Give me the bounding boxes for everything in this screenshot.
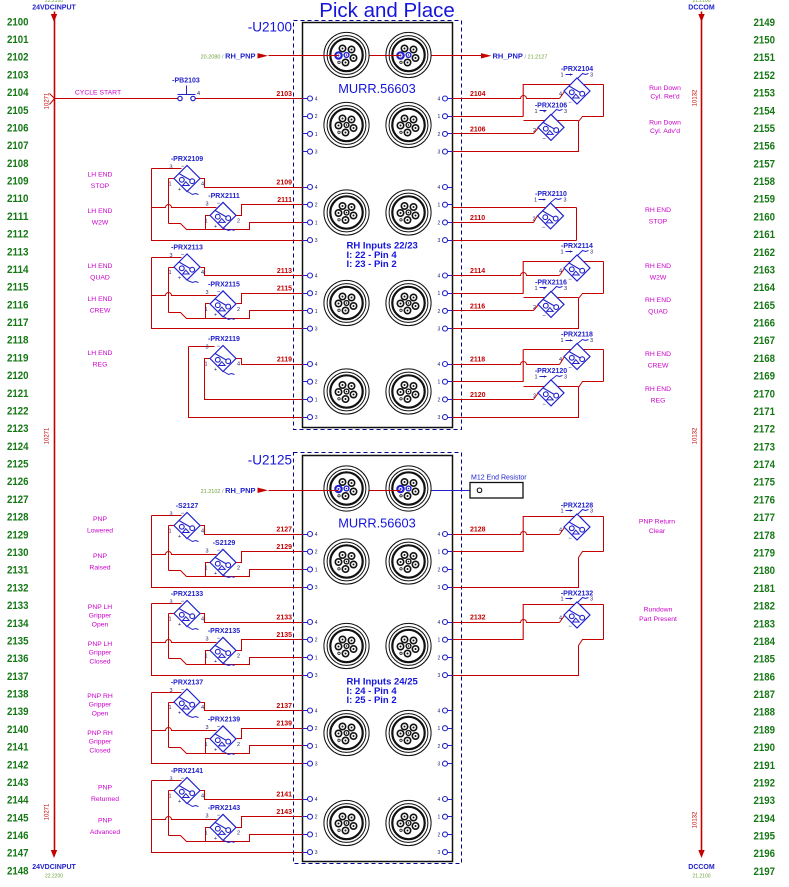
label Run Down Cyl. Ret'd bbox=[649, 85, 681, 101]
wire number 2120 bbox=[470, 392, 486, 399]
svg-text:2114: 2114 bbox=[7, 264, 29, 276]
right power rail DCCOM bbox=[688, 0, 715, 880]
svg-text:-PRX2132: -PRX2132 bbox=[561, 591, 593, 598]
svg-text:2: 2 bbox=[237, 742, 240, 748]
proximity sensor PRX2141 bbox=[168, 768, 204, 807]
svg-text:CYCLE START: CYCLE START bbox=[75, 90, 121, 97]
svg-text:2150: 2150 bbox=[754, 34, 776, 46]
svg-text:2: 2 bbox=[237, 653, 240, 659]
svg-text:W2W: W2W bbox=[650, 275, 667, 282]
svg-text:21.2100: 21.2100 bbox=[692, 0, 710, 4]
wire net PRX2109/PRX2111 supply and signals bbox=[152, 169, 303, 241]
svg-text:2110: 2110 bbox=[7, 193, 29, 205]
svg-text:LH END: LH END bbox=[88, 263, 113, 270]
svg-text:4: 4 bbox=[438, 797, 441, 803]
svg-text:REG: REG bbox=[93, 362, 108, 369]
svg-text:2102: 2102 bbox=[7, 52, 29, 64]
svg-text:−: − bbox=[181, 164, 185, 170]
M12 connector U2100 row4 right bbox=[386, 369, 431, 414]
svg-text:+: + bbox=[214, 224, 217, 230]
svg-text:3: 3 bbox=[438, 762, 441, 768]
svg-text:4: 4 bbox=[438, 274, 441, 280]
svg-text:3: 3 bbox=[315, 150, 318, 156]
svg-text:2119: 2119 bbox=[277, 357, 292, 364]
svg-text:1: 1 bbox=[534, 286, 537, 292]
svg-text:Raised: Raised bbox=[89, 565, 110, 572]
svg-text:3: 3 bbox=[205, 290, 208, 296]
svg-text:+: + bbox=[542, 197, 545, 203]
svg-text:4: 4 bbox=[438, 709, 441, 715]
label PNP Returned bbox=[91, 785, 119, 804]
svg-text:+: + bbox=[569, 338, 572, 344]
svg-text:1: 1 bbox=[560, 338, 563, 344]
svg-text:+: + bbox=[214, 747, 217, 753]
svg-text:-PRX2118: -PRX2118 bbox=[561, 332, 593, 339]
module U2100 left pins bbox=[303, 96, 318, 421]
svg-text:+: + bbox=[569, 73, 572, 79]
svg-text:3: 3 bbox=[315, 762, 318, 768]
svg-text:-PRX2139: -PRX2139 bbox=[208, 716, 240, 723]
svg-text:2156: 2156 bbox=[754, 141, 776, 153]
svg-text:+: + bbox=[569, 597, 572, 603]
svg-text:STOP: STOP bbox=[91, 183, 110, 190]
svg-text:+: + bbox=[178, 276, 181, 282]
svg-text:2133: 2133 bbox=[7, 600, 29, 612]
svg-text:-PRX2110: -PRX2110 bbox=[535, 191, 567, 198]
svg-text:3: 3 bbox=[315, 327, 318, 333]
svg-text:I: 25 - Pin 2: I: 25 - Pin 2 bbox=[347, 695, 397, 706]
wire number 2114 bbox=[470, 268, 485, 275]
svg-text:2143: 2143 bbox=[7, 777, 29, 789]
svg-text:4: 4 bbox=[315, 362, 318, 368]
svg-text:2114: 2114 bbox=[470, 268, 485, 275]
svg-text:2: 2 bbox=[315, 380, 318, 386]
svg-text:1: 1 bbox=[204, 830, 207, 836]
proximity sensor PRX2116 bbox=[533, 279, 567, 319]
svg-text:2167: 2167 bbox=[754, 335, 776, 347]
svg-text:Cyl. Ret'd: Cyl. Ret'd bbox=[650, 94, 679, 101]
svg-text:2141: 2141 bbox=[276, 792, 292, 799]
svg-text:3: 3 bbox=[438, 850, 441, 856]
svg-text:2116: 2116 bbox=[470, 303, 485, 310]
svg-text:−: − bbox=[217, 201, 221, 207]
proximity sensor PRX2104 bbox=[559, 66, 593, 106]
svg-text:3: 3 bbox=[438, 415, 441, 421]
svg-text:2185: 2185 bbox=[754, 654, 776, 666]
wire number 2127 bbox=[276, 527, 292, 534]
svg-text:1: 1 bbox=[534, 197, 537, 203]
push button PB2103 (CYCLE START) bbox=[172, 78, 200, 101]
svg-text:4: 4 bbox=[201, 182, 204, 188]
svg-text:3: 3 bbox=[590, 509, 593, 515]
svg-text:LH END: LH END bbox=[88, 350, 113, 357]
label RH END CREW bbox=[645, 351, 671, 370]
svg-text:2101: 2101 bbox=[7, 34, 29, 46]
svg-text:2: 2 bbox=[315, 550, 318, 556]
svg-text:-PRX2119: -PRX2119 bbox=[208, 336, 240, 343]
svg-text:2: 2 bbox=[533, 393, 536, 399]
wire net PRX2104/PRX2106 supply and signals bbox=[453, 84, 604, 152]
svg-text:−: − bbox=[181, 688, 185, 694]
svg-text:2103: 2103 bbox=[276, 91, 292, 98]
svg-text:2117: 2117 bbox=[7, 317, 29, 329]
svg-text:PNP Return: PNP Return bbox=[639, 519, 675, 526]
svg-text:Gripper: Gripper bbox=[89, 650, 112, 657]
svg-text:4: 4 bbox=[438, 620, 441, 626]
svg-text:4: 4 bbox=[315, 620, 318, 626]
svg-text:2: 2 bbox=[237, 307, 240, 313]
svg-text:CREW: CREW bbox=[648, 363, 669, 370]
svg-text:2161: 2161 bbox=[754, 229, 776, 241]
svg-text:2173: 2173 bbox=[754, 441, 776, 453]
svg-text:3: 3 bbox=[205, 548, 208, 554]
svg-text:Part Present: Part Present bbox=[639, 616, 677, 623]
svg-text:2163: 2163 bbox=[754, 264, 776, 276]
svg-text:3: 3 bbox=[205, 725, 208, 731]
svg-text:+: + bbox=[178, 711, 181, 717]
svg-text:+: + bbox=[178, 622, 181, 628]
proximity sensor PRX2115 bbox=[204, 281, 240, 319]
svg-text:2133: 2133 bbox=[276, 615, 292, 622]
svg-text:2194: 2194 bbox=[754, 813, 776, 825]
wire number 2118 bbox=[470, 357, 485, 364]
svg-text:PNP: PNP bbox=[93, 516, 107, 523]
label LH END QUAD bbox=[88, 263, 113, 282]
svg-text:2182: 2182 bbox=[754, 601, 776, 613]
proximity sensor PRX2143 bbox=[204, 805, 240, 843]
svg-text:2146: 2146 bbox=[7, 830, 29, 842]
svg-text:−: − bbox=[568, 536, 572, 542]
svg-text:2129: 2129 bbox=[7, 529, 29, 541]
svg-text:+: + bbox=[543, 374, 546, 380]
svg-text:-PRX2143: -PRX2143 bbox=[208, 805, 240, 812]
M12 connector U2100 row1 left bbox=[324, 102, 369, 147]
svg-text:Gripper: Gripper bbox=[89, 739, 112, 746]
svg-text:Cyl. Adv'd: Cyl. Adv'd bbox=[650, 128, 680, 135]
proximity sensor PRX2119 bbox=[204, 336, 240, 375]
svg-text:+: + bbox=[214, 659, 217, 665]
svg-text:2188: 2188 bbox=[754, 707, 776, 719]
proximity sensor PRX2114 bbox=[559, 243, 593, 283]
wire RH_PNP feed into U2125 (node 21.2102 / RH_PNP) bbox=[201, 486, 339, 495]
svg-text:2143: 2143 bbox=[276, 809, 292, 816]
svg-text:4: 4 bbox=[315, 97, 318, 103]
svg-text:3: 3 bbox=[169, 600, 172, 606]
module U2125 right pins bbox=[438, 532, 453, 857]
svg-text:4: 4 bbox=[201, 617, 204, 623]
label RH END W2W bbox=[645, 263, 671, 282]
svg-text:DCCOM: DCCOM bbox=[688, 5, 715, 12]
svg-text:1: 1 bbox=[560, 250, 563, 256]
wire number 2110 bbox=[470, 215, 485, 222]
svg-text:2109: 2109 bbox=[7, 176, 29, 188]
svg-text:3: 3 bbox=[438, 673, 441, 679]
svg-text:2: 2 bbox=[237, 218, 240, 224]
svg-text:2152: 2152 bbox=[754, 70, 776, 82]
svg-text:2118: 2118 bbox=[470, 357, 485, 364]
wire net PRX2128 bbox=[453, 516, 604, 588]
svg-text:2106: 2106 bbox=[470, 126, 486, 133]
svg-text:3: 3 bbox=[438, 150, 441, 156]
svg-text:2174: 2174 bbox=[754, 459, 776, 471]
svg-text:2100: 2100 bbox=[7, 16, 29, 28]
svg-text:2160: 2160 bbox=[754, 211, 776, 223]
svg-text:2168: 2168 bbox=[754, 353, 776, 365]
svg-text:−: − bbox=[568, 100, 572, 106]
svg-text:1: 1 bbox=[438, 726, 441, 732]
wire 2103 CYCLE START to U2100 pin4 bbox=[50, 94, 303, 105]
svg-text:2: 2 bbox=[438, 309, 441, 315]
M12 End Resistor bbox=[470, 475, 527, 499]
svg-text:2121: 2121 bbox=[7, 388, 29, 400]
svg-text:2134: 2134 bbox=[7, 618, 29, 630]
proximity sensor PRX2106 bbox=[533, 102, 567, 142]
svg-text:-U2100: -U2100 bbox=[248, 20, 292, 35]
svg-text:10132: 10132 bbox=[693, 427, 699, 444]
label PNP RH Gripper Closed bbox=[87, 730, 113, 754]
proximity sensor PRX2120 bbox=[533, 368, 567, 408]
svg-text:24VDCINPUT: 24VDCINPUT bbox=[32, 5, 76, 12]
label PNP RH Gripper Open bbox=[87, 693, 113, 717]
svg-text:2165: 2165 bbox=[754, 300, 776, 312]
svg-text:2162: 2162 bbox=[754, 247, 776, 259]
proximity sensor PRX2137 bbox=[168, 680, 204, 718]
svg-text:22.2100: 22.2100 bbox=[45, 0, 63, 4]
M12 connector U2100 row3 left bbox=[324, 280, 369, 325]
svg-text:1: 1 bbox=[560, 73, 563, 79]
svg-text:W2W: W2W bbox=[92, 220, 109, 227]
svg-text:4: 4 bbox=[438, 532, 441, 538]
svg-text:2127: 2127 bbox=[7, 494, 29, 506]
svg-text:+: + bbox=[178, 534, 181, 540]
svg-text:−: − bbox=[181, 253, 185, 259]
svg-text:1: 1 bbox=[168, 794, 171, 800]
svg-text:−: − bbox=[217, 289, 221, 295]
M12 connector U2125 top-left (wired) bbox=[324, 466, 369, 511]
svg-text:+: + bbox=[214, 312, 217, 318]
svg-text:2: 2 bbox=[237, 565, 240, 571]
svg-text:2149: 2149 bbox=[754, 17, 776, 29]
M12 connector U2100 row2 left bbox=[324, 190, 369, 235]
wire number 2137 bbox=[276, 703, 292, 710]
svg-text:-PRX2109: -PRX2109 bbox=[171, 156, 203, 163]
svg-text:1: 1 bbox=[204, 218, 207, 224]
svg-text:-PRX2135: -PRX2135 bbox=[208, 628, 240, 635]
svg-text:2: 2 bbox=[438, 397, 441, 403]
svg-text:2: 2 bbox=[438, 832, 441, 838]
M12 connector U2125 row1 right bbox=[386, 539, 431, 584]
svg-text:2151: 2151 bbox=[754, 52, 776, 64]
svg-text:-S2129: -S2129 bbox=[213, 540, 236, 547]
svg-text:1: 1 bbox=[204, 742, 207, 748]
svg-text:2180: 2180 bbox=[754, 565, 776, 577]
M12 connector U2100 top-left (wired) bbox=[324, 32, 369, 77]
svg-text:-PRX2106: -PRX2106 bbox=[535, 102, 567, 109]
svg-text:2140: 2140 bbox=[7, 724, 29, 736]
svg-text:2: 2 bbox=[438, 132, 441, 138]
wire number 2106 bbox=[470, 126, 486, 133]
right line numbers 2149-2197 bbox=[754, 17, 776, 878]
wire number 2119 bbox=[277, 357, 292, 364]
svg-text:+: + bbox=[178, 187, 181, 193]
svg-text:2197: 2197 bbox=[754, 866, 776, 878]
svg-text:1: 1 bbox=[560, 509, 563, 515]
M12 connector U2100 row4 left bbox=[324, 369, 369, 414]
svg-text:10132: 10132 bbox=[693, 89, 699, 106]
svg-text:2139: 2139 bbox=[7, 706, 29, 718]
svg-text:−: − bbox=[217, 813, 221, 819]
svg-text:1: 1 bbox=[315, 655, 318, 661]
wire net PRX2113/PRX2115 supply and signals bbox=[152, 258, 303, 329]
svg-text:2128: 2128 bbox=[7, 512, 29, 524]
svg-text:3: 3 bbox=[438, 327, 441, 333]
svg-text:2155: 2155 bbox=[754, 123, 776, 135]
svg-text:PNP: PNP bbox=[98, 818, 112, 825]
svg-text:4: 4 bbox=[315, 709, 318, 715]
svg-text:10132: 10132 bbox=[693, 811, 699, 828]
svg-text:-PRX2141: -PRX2141 bbox=[171, 768, 203, 775]
svg-text:3: 3 bbox=[205, 636, 208, 642]
svg-text:+: + bbox=[214, 367, 217, 373]
svg-text:-S2127: -S2127 bbox=[176, 503, 199, 510]
svg-text:2137: 2137 bbox=[276, 703, 292, 710]
wire net PRX2110 bbox=[453, 208, 577, 241]
svg-text:QUAD: QUAD bbox=[90, 275, 110, 282]
proximity sensor PRX2128 bbox=[559, 503, 593, 543]
svg-text:1: 1 bbox=[315, 832, 318, 838]
label PNP Raised bbox=[89, 553, 110, 572]
svg-text:-PRX2128: -PRX2128 bbox=[561, 503, 593, 510]
M12 connector U2125 top-right (wired) bbox=[386, 466, 431, 511]
svg-text:Run Down: Run Down bbox=[649, 120, 681, 127]
svg-text:−: − bbox=[217, 636, 221, 642]
svg-text:2115: 2115 bbox=[7, 282, 29, 294]
svg-text:2: 2 bbox=[438, 567, 441, 573]
svg-text:1: 1 bbox=[560, 597, 563, 603]
svg-text:−: − bbox=[542, 225, 546, 231]
proximity sensor PRX2139 bbox=[204, 716, 240, 754]
proximity sensor PRX2111 bbox=[204, 193, 240, 231]
svg-text:4: 4 bbox=[438, 362, 441, 368]
svg-text:RH END: RH END bbox=[645, 297, 671, 304]
svg-text:2103: 2103 bbox=[7, 69, 29, 81]
svg-text:2181: 2181 bbox=[754, 583, 776, 595]
svg-text:2169: 2169 bbox=[754, 371, 776, 383]
svg-text:2135: 2135 bbox=[7, 635, 29, 647]
svg-text:LH END: LH END bbox=[88, 172, 113, 179]
svg-text:2186: 2186 bbox=[754, 671, 776, 683]
svg-text:2125: 2125 bbox=[7, 459, 29, 471]
M12 connector U2125 row2 left bbox=[324, 623, 369, 668]
svg-text:Closed: Closed bbox=[89, 747, 110, 754]
M12 connector U2100 top-right (wired) bbox=[386, 32, 431, 77]
label LH END REG bbox=[88, 350, 113, 369]
svg-text:2148: 2148 bbox=[7, 865, 29, 877]
svg-text:2107: 2107 bbox=[7, 140, 29, 152]
svg-text:2: 2 bbox=[315, 815, 318, 821]
svg-text:1: 1 bbox=[168, 270, 171, 276]
svg-text:2164: 2164 bbox=[754, 282, 776, 294]
svg-text:PNP RH: PNP RH bbox=[87, 730, 113, 737]
svg-text:2113: 2113 bbox=[277, 268, 292, 275]
svg-text:1: 1 bbox=[438, 815, 441, 821]
svg-text:2137: 2137 bbox=[7, 671, 29, 683]
wire U2125 to M12 end resistor (blue) bbox=[370, 490, 478, 492]
M12 connector U2125 row3 left bbox=[324, 710, 369, 755]
svg-text:1: 1 bbox=[204, 307, 207, 313]
svg-text:2124: 2124 bbox=[7, 441, 29, 453]
svg-text:2193: 2193 bbox=[754, 795, 776, 807]
svg-text:−: − bbox=[542, 402, 546, 408]
svg-text:-PRX2133: -PRX2133 bbox=[171, 591, 203, 598]
svg-text:-PRX2115: -PRX2115 bbox=[208, 281, 240, 288]
proximity sensor S2129 bbox=[204, 540, 240, 578]
svg-text:1: 1 bbox=[315, 397, 318, 403]
svg-text:2128: 2128 bbox=[470, 527, 486, 534]
svg-text:1: 1 bbox=[204, 653, 207, 659]
svg-text:PNP RH: PNP RH bbox=[87, 693, 113, 700]
wire number 2113 bbox=[277, 268, 292, 275]
svg-text:2183: 2183 bbox=[754, 618, 776, 630]
svg-text:2158: 2158 bbox=[754, 176, 776, 188]
svg-text:1: 1 bbox=[534, 109, 537, 115]
svg-text:1: 1 bbox=[315, 220, 318, 226]
svg-text:2184: 2184 bbox=[754, 636, 776, 648]
proximity sensor PRX2133 bbox=[168, 591, 204, 630]
svg-text:1: 1 bbox=[438, 638, 441, 644]
svg-text:Gripper: Gripper bbox=[89, 613, 112, 620]
wire net PRX2132 bbox=[453, 604, 604, 676]
svg-text:10271: 10271 bbox=[45, 427, 51, 444]
svg-text:-PRX2120: -PRX2120 bbox=[535, 368, 567, 375]
svg-text:Open: Open bbox=[92, 621, 109, 628]
svg-text:RH END: RH END bbox=[645, 351, 671, 358]
svg-text:3: 3 bbox=[169, 777, 172, 783]
wire net PRX2133/PRX2135 supply and signals bbox=[152, 604, 303, 676]
svg-text:Open: Open bbox=[92, 710, 109, 717]
svg-text:−: − bbox=[568, 624, 572, 630]
proximity sensor PRX2110 bbox=[532, 191, 567, 231]
module U2100 MURR.56603 bbox=[248, 20, 462, 430]
svg-text:2135: 2135 bbox=[276, 632, 292, 639]
svg-text:2106: 2106 bbox=[7, 122, 29, 134]
wire number 2139 bbox=[276, 721, 292, 728]
svg-text:PNP: PNP bbox=[93, 553, 107, 560]
svg-text:4: 4 bbox=[201, 705, 204, 711]
svg-text:4: 4 bbox=[559, 616, 562, 622]
svg-text:3: 3 bbox=[564, 374, 567, 380]
svg-text:2141: 2141 bbox=[7, 742, 29, 754]
svg-text:3: 3 bbox=[205, 201, 208, 207]
svg-text:2123: 2123 bbox=[7, 423, 29, 435]
svg-text:3: 3 bbox=[315, 850, 318, 856]
svg-text:Lowered: Lowered bbox=[87, 528, 113, 535]
svg-text:2132: 2132 bbox=[470, 615, 486, 622]
svg-text:2166: 2166 bbox=[754, 318, 776, 330]
M12 connector U2100 row2 right bbox=[386, 190, 431, 235]
svg-text:2: 2 bbox=[315, 638, 318, 644]
svg-text:2172: 2172 bbox=[754, 424, 776, 436]
svg-text:2111: 2111 bbox=[277, 197, 292, 204]
svg-text:2190: 2190 bbox=[754, 742, 776, 754]
svg-text:4: 4 bbox=[559, 528, 562, 534]
wire number 2104 bbox=[470, 91, 486, 98]
svg-text:3: 3 bbox=[315, 673, 318, 679]
svg-text:Advanced: Advanced bbox=[90, 829, 120, 836]
svg-text:RH END: RH END bbox=[645, 386, 671, 393]
svg-text:-PRX2111: -PRX2111 bbox=[208, 193, 240, 200]
svg-text:3: 3 bbox=[564, 109, 567, 115]
